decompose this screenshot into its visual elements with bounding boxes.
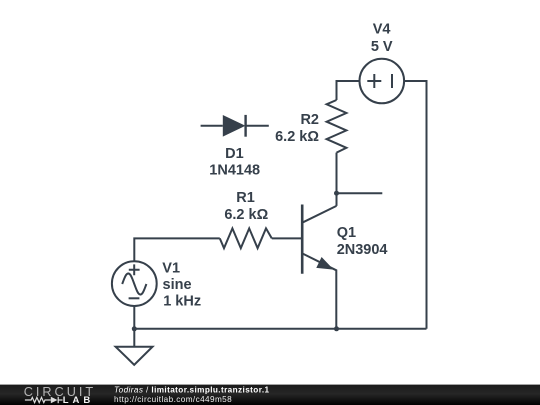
diode D1 cathode bar — [244, 115, 246, 137]
svg-text:LAB: LAB — [63, 395, 95, 405]
wire diode D1 anode — [201, 125, 223, 127]
svg-text:R2: R2 — [300, 112, 319, 128]
transistor Q1 base bar — [301, 205, 304, 274]
V1 plus symbol — [129, 264, 140, 275]
voltage source V4 circle — [360, 59, 405, 104]
transistor Q1 emitter lead — [302, 253, 336, 328]
resistor R1 — [220, 228, 272, 248]
svg-text:6.2 kΩ: 6.2 kΩ — [224, 207, 268, 223]
wire V4 left to R2 top — [337, 81, 360, 100]
wire V1 bottom to ground — [133, 306, 135, 347]
logo resistor-diode glyph — [25, 397, 63, 403]
svg-text:6.2 kΩ: 6.2 kΩ — [275, 129, 319, 145]
wire R1 to Q1 base — [272, 237, 301, 239]
diode D1 body — [223, 115, 246, 137]
svg-text:5 V: 5 V — [371, 39, 393, 55]
footer bar — [0, 385, 540, 405]
svg-text:R1: R1 — [236, 190, 255, 206]
wire V1 top to R1 — [134, 238, 220, 262]
svg-text:Todiras / limitator.simplu.tra: Todiras / limitator.simplu.tranzistor.1 — [114, 385, 269, 394]
V4 plus symbol — [367, 74, 381, 88]
transistor Q1 emitter arrow — [318, 258, 332, 268]
V1 minus symbol — [129, 297, 140, 299]
wire collector node stub — [337, 192, 383, 194]
node V1 bottom junction — [132, 326, 137, 331]
wire bottom rail — [134, 328, 426, 330]
resistor R2 — [327, 100, 347, 153]
svg-text:http://circuitlab.com/c449m58: http://circuitlab.com/c449m58 — [114, 395, 232, 404]
svg-text:D1: D1 — [225, 146, 244, 162]
svg-text:1 kHz: 1 kHz — [163, 294, 201, 310]
svg-text:V4: V4 — [373, 22, 391, 38]
wire V4 right down to bottom rail — [404, 81, 426, 329]
svg-text:V1: V1 — [162, 260, 180, 276]
node collector junction — [334, 191, 339, 196]
wire diode D1 cathode — [246, 125, 269, 127]
svg-text:Q1: Q1 — [337, 225, 356, 241]
ground — [116, 347, 153, 365]
logo diode triangle — [51, 397, 58, 403]
svg-text:1N4148: 1N4148 — [209, 162, 260, 178]
V4 minus bar — [391, 74, 393, 88]
node emitter bottom junction — [334, 326, 339, 331]
svg-text:2N3904: 2N3904 — [337, 242, 388, 258]
transistor Q1 collector lead — [302, 206, 336, 223]
V1 sine wave — [122, 273, 146, 294]
wire R2 bottom to collector — [336, 153, 338, 206]
voltage source V1 circle — [112, 261, 157, 306]
svg-text:sine: sine — [163, 277, 192, 293]
